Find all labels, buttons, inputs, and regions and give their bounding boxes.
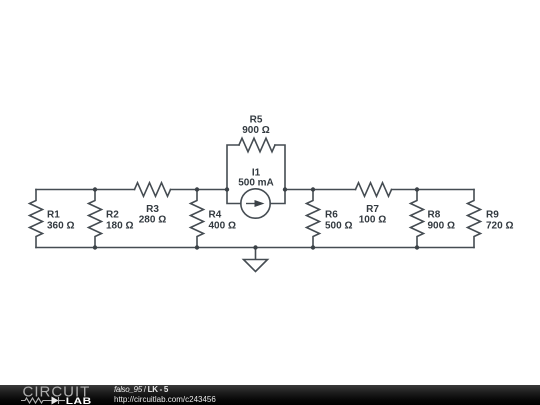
resistor R5 (239, 138, 275, 152)
resistor R2 (89, 190, 102, 248)
svg-text:280 Ω: 280 Ω (139, 215, 166, 226)
resistor R6 (307, 190, 320, 248)
svg-text:R5: R5 (250, 115, 263, 126)
svg-text:R9: R9 (486, 210, 499, 221)
resistor R8 (411, 190, 424, 248)
node dots (93, 187, 419, 249)
node R4 bottom (195, 245, 199, 249)
current source I1 circle (241, 189, 270, 218)
svg-text:R4: R4 (209, 210, 222, 221)
svg-text:500 Ω: 500 Ω (325, 221, 352, 232)
wire loop right lower (270, 190, 285, 204)
footer bar (0, 385, 540, 405)
resistor R9 (468, 190, 481, 248)
resistor R3 (135, 183, 171, 197)
node R4 top (195, 187, 199, 191)
resistor R4 (191, 190, 204, 248)
node R2 top (93, 187, 97, 191)
svg-text:R2: R2 (106, 210, 119, 221)
wire top rail mid (171, 189, 228, 191)
svg-text:500 mA: 500 mA (238, 178, 274, 189)
node R2 bottom (93, 245, 97, 249)
wire bottom rail (36, 247, 474, 249)
svg-text:180 Ω: 180 Ω (106, 221, 133, 232)
node R8 top (415, 187, 419, 191)
svg-text:100 Ω: 100 Ω (359, 215, 386, 226)
svg-text:R1: R1 (47, 210, 60, 221)
wire loop right vertical (275, 145, 285, 190)
node loop right (283, 187, 287, 191)
resistor R7 (356, 183, 392, 197)
svg-text:R3: R3 (146, 204, 159, 215)
svg-text:360 Ω: 360 Ω (47, 221, 74, 232)
svg-text:R7: R7 (366, 204, 379, 215)
svg-text:LAB: LAB (66, 396, 92, 405)
node R6 bottom (311, 245, 315, 249)
node ground (253, 245, 257, 249)
wire loop left vertical (227, 145, 239, 190)
node loop left (225, 187, 229, 191)
current source I1 arrow (246, 200, 265, 207)
svg-text:900 Ω: 900 Ω (242, 125, 269, 136)
ground (244, 248, 268, 272)
wire top rail right2 (392, 189, 475, 191)
svg-text:900 Ω: 900 Ω (428, 221, 455, 232)
svg-text:R8: R8 (428, 210, 441, 221)
node R6 top (311, 187, 315, 191)
resistor R1 (30, 190, 43, 248)
svg-text:400 Ω: 400 Ω (209, 221, 236, 232)
node R8 bottom (415, 245, 419, 249)
CircuitLab logo (0, 385, 110, 405)
svg-text:R6: R6 (325, 210, 338, 221)
wire top rail right1 (285, 189, 356, 191)
wire loop left lower (227, 190, 241, 204)
wire top rail left (36, 189, 135, 191)
svg-text:720 Ω: 720 Ω (486, 221, 513, 232)
